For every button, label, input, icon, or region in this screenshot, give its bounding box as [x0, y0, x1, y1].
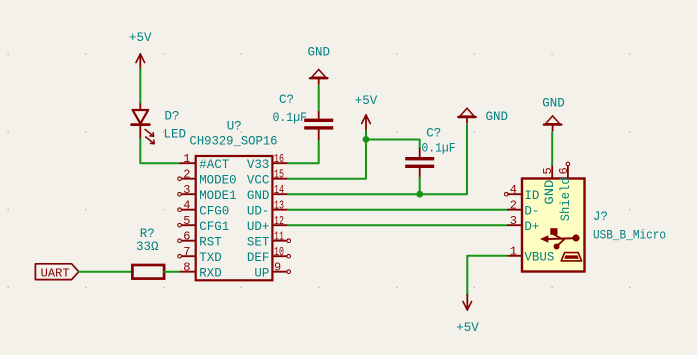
- svg-text:SET: SET: [247, 235, 270, 249]
- wire LED cathode to pin 1: [140, 139, 180, 163]
- IC U? CH9329_SOP16 body: [196, 156, 273, 280]
- svg-text:9: 9: [274, 261, 281, 275]
- pin 5 GND (top): [541, 165, 557, 205]
- svg-text:LED: LED: [164, 127, 187, 141]
- svg-text:GND: GND: [542, 97, 565, 111]
- pin 11 SET: [247, 230, 291, 250]
- svg-text:CFG1: CFG1: [199, 220, 229, 234]
- pin 2 D-: [508, 199, 540, 219]
- svg-text:D+: D+: [524, 220, 539, 234]
- wire +5V to LED anode: [139, 69, 141, 104]
- capacitor C1 0.1uF: [304, 112, 333, 141]
- svg-text:UD-: UD-: [247, 204, 270, 218]
- svg-text:1: 1: [183, 152, 190, 166]
- svg-text:UART: UART: [41, 266, 70, 280]
- power GND (top right, USB): [542, 97, 565, 131]
- svg-text:4: 4: [183, 199, 190, 213]
- pin 1 #ACT: [180, 152, 229, 172]
- svg-text:TXD: TXD: [199, 251, 222, 265]
- power GND (mid right): [458, 108, 508, 124]
- svg-text:+5V: +5V: [129, 31, 152, 45]
- micro-B connector icon: [561, 253, 581, 261]
- pin 4 CFG0: [178, 199, 229, 219]
- svg-text:#ACT: #ACT: [199, 158, 230, 172]
- svg-text:10: 10: [274, 245, 284, 259]
- wire UART to R: [79, 271, 133, 273]
- svg-text:7: 7: [183, 245, 190, 259]
- svg-text:2: 2: [183, 168, 190, 182]
- svg-text:0.1µF: 0.1µF: [422, 141, 456, 155]
- pin 8 RXD: [180, 261, 221, 281]
- svg-text:DEF: DEF: [247, 251, 270, 265]
- svg-text:UP: UP: [254, 266, 269, 280]
- svg-text:USB_B_Micro: USB_B_Micro: [593, 229, 666, 243]
- svg-text:V33: V33: [247, 158, 270, 172]
- svg-text:GND: GND: [486, 110, 509, 124]
- wire UD- to D-: [288, 209, 508, 211]
- wire GND to pin5: [551, 132, 553, 165]
- power +5V (bottom): [456, 295, 479, 335]
- svg-text:VCC: VCC: [247, 173, 270, 187]
- wire +5V to VCC pin15: [288, 131, 366, 179]
- svg-text:6: 6: [183, 230, 190, 244]
- svg-text:RST: RST: [199, 235, 222, 249]
- svg-text:GND: GND: [247, 189, 270, 203]
- svg-text:+5V: +5V: [355, 94, 378, 108]
- LED D? symbol: [132, 104, 155, 144]
- wire VBUS to +5V: [467, 256, 507, 296]
- svg-text:CH9329_SOP16: CH9329_SOP16: [190, 134, 278, 148]
- pin 10 DEF: [247, 245, 291, 265]
- svg-text:ID: ID: [524, 189, 539, 203]
- connector J? USB_B_Micro body: [522, 179, 585, 272]
- svg-text:33Ω: 33Ω: [136, 240, 159, 254]
- svg-text:3: 3: [183, 183, 190, 197]
- svg-text:16: 16: [274, 152, 284, 166]
- pin 2 MODE0: [178, 168, 237, 188]
- svg-text:U?: U?: [227, 120, 242, 134]
- svg-text:11: 11: [274, 230, 284, 244]
- svg-text:13: 13: [274, 199, 284, 213]
- svg-text:15: 15: [274, 168, 284, 182]
- svg-text:4: 4: [510, 183, 517, 197]
- wire GND to C1: [318, 86, 320, 112]
- pin 7 TXD: [178, 245, 222, 265]
- power GND (top center): [307, 46, 330, 85]
- capacitor C2 0.1uF: [405, 149, 434, 178]
- svg-text:6: 6: [557, 167, 571, 174]
- wire R to pin 8: [164, 271, 180, 273]
- pin 1 VBUS: [507, 245, 554, 265]
- pin 3 D+: [508, 214, 540, 234]
- svg-text:5: 5: [541, 167, 555, 174]
- pin 5 CFG1: [178, 214, 229, 234]
- wire GND pin14 to GND symbol: [288, 125, 467, 194]
- svg-text:R?: R?: [140, 227, 155, 241]
- wire junction branch to C2: [366, 140, 420, 149]
- power +5V (middle): [355, 94, 378, 131]
- junction node on GND wire: [416, 191, 423, 198]
- svg-text:Shield: Shield: [559, 177, 573, 221]
- svg-text:GND: GND: [543, 180, 557, 205]
- svg-text:C?: C?: [279, 93, 294, 107]
- hierarchical label UART: [35, 264, 78, 281]
- pin 6 Shield (top): [557, 162, 573, 221]
- svg-text:MODE0: MODE0: [199, 173, 236, 187]
- pin 6 RST: [178, 230, 222, 250]
- pin 14 GND: [247, 183, 288, 203]
- resistor R? 33R: [132, 265, 164, 279]
- svg-text:VBUS: VBUS: [524, 250, 554, 264]
- pin 4 ID: [505, 183, 540, 203]
- svg-text:14: 14: [274, 183, 284, 197]
- svg-text:1: 1: [510, 245, 517, 259]
- pin 9 UP: [254, 261, 290, 281]
- svg-text:RXD: RXD: [199, 266, 222, 280]
- svg-text:2: 2: [510, 199, 517, 213]
- wire C1 to V33 pin16: [288, 141, 319, 163]
- svg-text:12: 12: [274, 214, 284, 228]
- pin 16 V33: [247, 152, 288, 172]
- svg-text:J?: J?: [593, 210, 608, 224]
- USB trident icon: [540, 228, 580, 249]
- pin 13 UD-: [247, 199, 288, 219]
- svg-text:8: 8: [183, 261, 190, 275]
- svg-text:5: 5: [183, 214, 190, 228]
- junction node at +5V/VCC net: [363, 136, 370, 143]
- svg-text:0.1µF: 0.1µF: [273, 111, 308, 125]
- pin 15 VCC: [247, 168, 288, 188]
- svg-text:+5V: +5V: [456, 321, 479, 335]
- svg-text:GND: GND: [307, 46, 330, 60]
- svg-text:D?: D?: [165, 109, 180, 123]
- pin 3 MODE1: [178, 183, 237, 203]
- svg-text:UD+: UD+: [247, 220, 270, 234]
- pin 12 UD+: [247, 214, 288, 234]
- svg-text:D-: D-: [524, 204, 539, 218]
- svg-text:C?: C?: [426, 127, 441, 141]
- power +5V (top left): [129, 31, 152, 69]
- svg-text:3: 3: [510, 214, 517, 228]
- svg-text:CFG0: CFG0: [199, 204, 229, 218]
- wire C2 to GND net: [419, 178, 421, 195]
- grid dots (decorative): [8, 54, 631, 289]
- svg-text:MODE1: MODE1: [199, 189, 236, 203]
- wire UD+ to D+: [288, 224, 508, 226]
